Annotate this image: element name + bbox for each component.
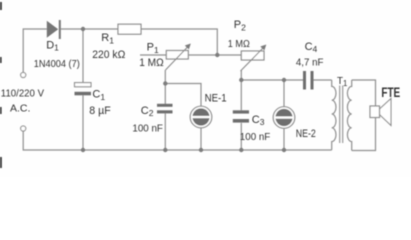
svg-text:FTE: FTE xyxy=(381,85,400,100)
node R1 / P1 / P2 xyxy=(215,53,219,57)
junction node dots xyxy=(81,27,286,152)
wire P2 wiper drop xyxy=(240,71,242,111)
svg-text:8 µF: 8 µF xyxy=(89,105,111,117)
neon lamp NE-1 xyxy=(190,106,212,128)
terminal upper input xyxy=(21,72,26,77)
capacitor C4 xyxy=(303,71,314,90)
svg-text:A.C.: A.C. xyxy=(10,103,30,115)
neon lamp NE-2 xyxy=(273,107,295,129)
speaker FTE xyxy=(370,99,391,126)
wire C4 to T1 xyxy=(314,79,332,81)
node rail NE-1 xyxy=(199,148,203,152)
wire C2 bottom lead xyxy=(164,113,166,150)
resistor R1 xyxy=(118,24,141,34)
potentiometer P1 xyxy=(166,44,191,71)
wire C1 top lead xyxy=(82,29,84,83)
wire C1 bottom lead xyxy=(82,95,84,150)
wire top rail xyxy=(23,29,217,72)
node rail C1 xyxy=(81,148,85,152)
wire C3 bottom lead xyxy=(240,123,242,150)
node rail C3 xyxy=(239,148,243,152)
svg-text:110/220 V: 110/220 V xyxy=(1,87,44,99)
capacitor C1 xyxy=(75,83,92,96)
node P1 wiper / C2 / NE-1 xyxy=(163,81,167,85)
wire NE-2 top lead xyxy=(283,80,285,107)
svg-text:4,7 nF: 4,7 nF xyxy=(296,58,324,69)
svg-text:1N4004 (7): 1N4004 (7) xyxy=(34,59,80,70)
node P2 wiper / C3 / C4 xyxy=(239,78,243,82)
wire P1 left stub xyxy=(140,54,166,56)
transformer T1 secondary xyxy=(347,80,351,151)
svg-text:220 kΩ: 220 kΩ xyxy=(92,49,125,61)
capacitor C3 xyxy=(233,110,249,122)
svg-text:1 MΩ: 1 MΩ xyxy=(139,57,164,69)
terminal lower input xyxy=(21,126,26,131)
wire NE-2 bottom lead xyxy=(283,128,285,150)
capacitor C2 xyxy=(157,104,173,114)
node rail NE-2 xyxy=(282,148,286,152)
wire secondary top to speaker xyxy=(352,80,376,151)
wire NE-1 bottom lead xyxy=(200,128,202,150)
transformer T1 primary xyxy=(332,80,336,150)
svg-text:100 nF: 100 nF xyxy=(240,132,270,143)
wire node A to NE-1 xyxy=(165,84,201,107)
svg-text:1 MΩ: 1 MΩ xyxy=(228,39,250,50)
svg-text:100 nF: 100 nF xyxy=(132,124,163,135)
wire P1-P2 row xyxy=(188,54,241,56)
node NE-2 tap xyxy=(282,78,286,82)
node rail C2 xyxy=(163,148,167,152)
wire node B to C4 xyxy=(241,79,303,81)
transformer T1 core xyxy=(340,86,343,144)
node top rail / C1 xyxy=(81,27,85,31)
svg-text:NE-2: NE-2 xyxy=(296,128,316,140)
scan edge artifacts xyxy=(0,2,2,168)
wire P1 wiper drop xyxy=(164,70,166,104)
potentiometer P2 xyxy=(241,45,267,72)
svg-text:NE-1: NE-1 xyxy=(205,92,227,104)
diode D1 xyxy=(47,20,61,39)
wire bottom rail xyxy=(23,131,332,150)
